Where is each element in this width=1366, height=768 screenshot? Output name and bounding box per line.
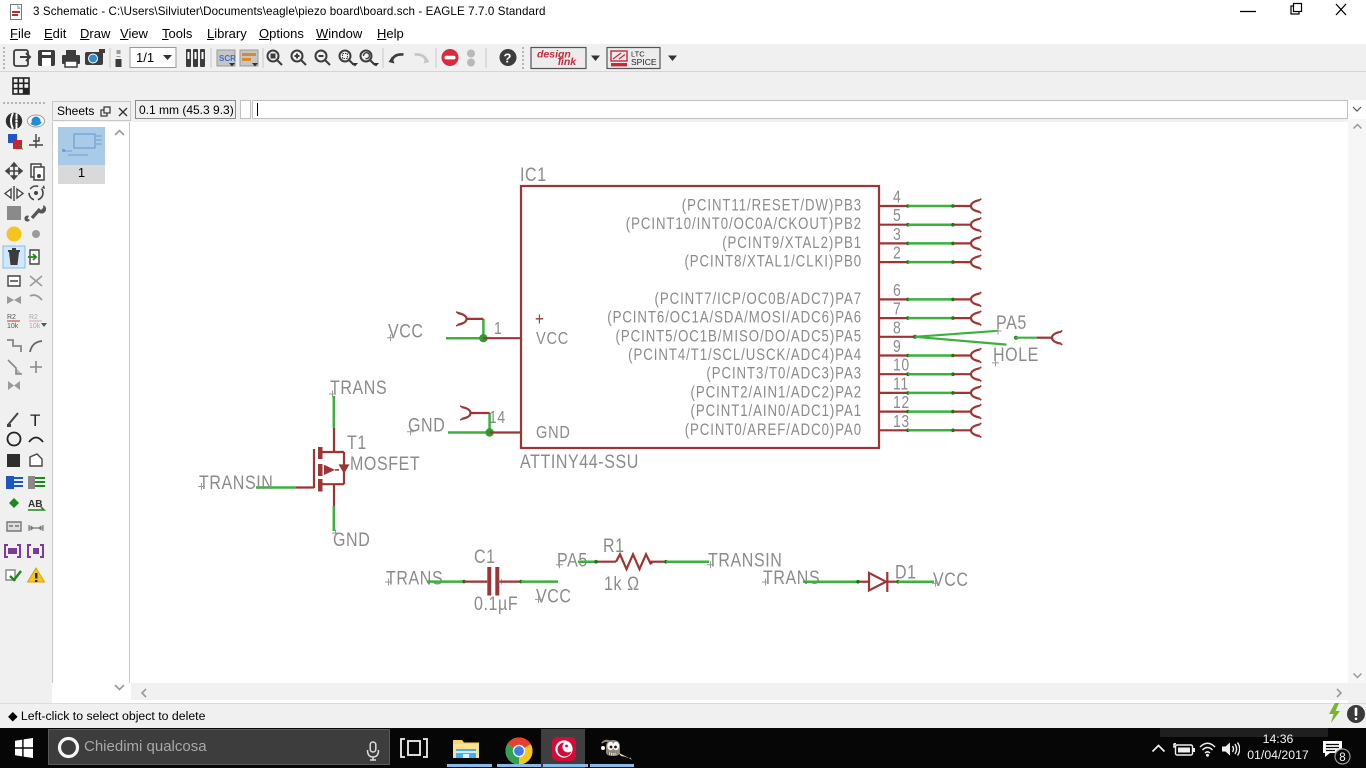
svg-text:D1: D1 — [895, 561, 917, 583]
r16: rect / polygon — [7, 454, 20, 467]
traffic dots — [467, 50, 475, 58]
resistor R1 — [596, 554, 666, 569]
r2: display layers / mark — [8, 134, 17, 143]
wifi — [1198, 741, 1217, 757]
svg-text:8: 8 — [893, 319, 901, 338]
pin 7 wire and connector — [879, 311, 981, 326]
svg-text:9: 9 — [893, 338, 901, 357]
label GND (net to pin14) — [407, 414, 445, 436]
pin 11 wire and connector — [879, 386, 981, 401]
transistor T1 MOSFET — [296, 428, 350, 506]
r1: info globe / show eye — [6, 113, 22, 129]
wire net HOLE (diagonal down) — [915, 337, 1007, 345]
r6: paint / dot — [7, 227, 22, 242]
svg-text:5: 5 — [893, 207, 901, 226]
label TRANSIN (gate) — [198, 471, 273, 493]
sep — [382, 48, 384, 68]
design link button — [531, 48, 586, 69]
svg-text:VCC: VCC — [388, 320, 424, 342]
pin function labels of IC1 — [607, 197, 862, 439]
svg-text:7: 7 — [893, 300, 901, 319]
junction at pin 1 — [479, 334, 487, 342]
r20: pinswap / gateswap purple — [5, 545, 20, 557]
pin 3 wire and connector — [879, 236, 981, 251]
svg-text:14: 14 — [489, 409, 506, 428]
svg-text:T: T — [30, 411, 40, 430]
svg-text:VCC: VCC — [536, 585, 572, 607]
svg-text:TRANS: TRANS — [763, 566, 820, 588]
r15: circle / arc — [8, 433, 21, 446]
r4: mirror / rotate — [5, 186, 23, 201]
label HOLE — [992, 343, 1039, 366]
thumbnail — [58, 127, 105, 165]
svg-text:C1: C1 — [474, 545, 496, 567]
r12: ratsnest / airwire — [8, 360, 22, 374]
wire net TRANS to D1 — [762, 566, 860, 588]
wire net TRANSIN from R1 — [664, 549, 782, 571]
svg-text:0.1µF: 0.1µF — [474, 592, 518, 614]
pin 4 wire and connector — [879, 199, 981, 214]
LTC SPICE button — [607, 48, 660, 69]
diode D1 — [858, 572, 898, 592]
CANVAS — [131, 122, 1348, 683]
tray chevron — [1151, 744, 1166, 753]
pin 6 wire and connector — [879, 292, 981, 307]
wire net TRANSIN (gate) — [256, 486, 296, 489]
r13: arrows — [8, 381, 20, 390]
battery — [1172, 742, 1195, 756]
svg-text:8: 8 — [1339, 752, 1345, 764]
connector pin HOLE — [1037, 330, 1063, 345]
svg-text:GND: GND — [408, 414, 445, 436]
r11: gateswap / bend — [7, 340, 21, 352]
svg-text:SCR: SCR — [219, 54, 236, 63]
svg-text:TRANSIN: TRANSIN — [199, 471, 273, 493]
svg-text:SPICE: SPICE — [631, 57, 657, 67]
svg-text:VCC: VCC — [933, 568, 969, 590]
handle — [522, 47, 524, 69]
clock — [1243, 732, 1313, 764]
svg-text:1k Ω: 1k Ω — [604, 572, 640, 594]
cortana search box — [48, 729, 390, 765]
small stack icon — [117, 50, 121, 60]
pin 14 wire into IC — [490, 431, 521, 433]
r5: group / change wrench — [7, 206, 21, 220]
svg-text:TRANS: TRANS — [386, 567, 443, 589]
running underlines — [447, 764, 492, 767]
svg-text:1: 1 — [494, 320, 502, 339]
svg-text:link: link — [558, 56, 577, 68]
open — [14, 50, 28, 66]
connector pin GND supply — [460, 406, 489, 421]
svg-text:1/1: 1/1 — [136, 50, 154, 65]
svg-text:(PCINT6/OC1A/SDA/MOSI/ADC6)PA6: (PCINT6/OC1A/SDA/MOSI/ADC6)PA6 — [607, 309, 862, 327]
pin 2 wire and connector — [879, 255, 981, 270]
save — [38, 50, 55, 66]
svg-text:+: + — [535, 308, 544, 329]
wire net PA5 to R1 — [578, 560, 598, 564]
r18: junction / label — [9, 498, 19, 508]
start button — [15, 738, 33, 758]
combo 1/1 — [130, 48, 176, 68]
sep — [262, 48, 264, 68]
svg-text:11: 11 — [893, 375, 909, 394]
wire net PA5 (diagonal up) — [915, 331, 998, 337]
pin 8 stub of IC1 — [879, 336, 915, 338]
LEFT PALETTE — [0, 100, 52, 703]
svg-text:(PCINT9/XTAL2)PB1: (PCINT9/XTAL2)PB1 — [722, 235, 862, 253]
label VCC (net to pin1) — [387, 320, 424, 342]
svg-text:R2: R2 — [29, 314, 38, 321]
SCR icon — [217, 50, 235, 66]
IC IC1 body ATTINY44-SSU — [521, 186, 879, 448]
junction on pin 8 — [913, 335, 917, 339]
V SCROLLBAR — [1348, 119, 1366, 683]
wire net GND (source) — [333, 506, 336, 531]
svg-text:12: 12 — [893, 394, 910, 413]
svg-text:GND: GND — [536, 423, 571, 443]
wire HOLE horizontal segment — [1014, 336, 1037, 340]
BRD icon — [240, 50, 258, 66]
r9: smash — [7, 296, 21, 304]
junction at pin 14 — [485, 428, 493, 436]
svg-text:(PCINT1/AIN0/ADC1)PA1: (PCINT1/AIN0/ADC1)PA1 — [691, 403, 862, 421]
PANEL ROW: sheets header / coord / command — [0, 100, 1366, 122]
pin 5 wire and connector — [879, 217, 981, 232]
r8: name / value — [8, 276, 20, 286]
wire VCC net — [446, 319, 483, 338]
sep — [485, 48, 487, 68]
svg-text:10k: 10k — [29, 323, 41, 330]
pin 10 wire and connector — [879, 367, 981, 382]
print — [62, 55, 80, 64]
speaker — [1221, 741, 1240, 757]
sep — [109, 48, 111, 68]
sep — [435, 48, 437, 68]
svg-text:(PCINT3/T0/ADC3)PA3: (PCINT3/T0/ADC3)PA3 — [706, 365, 862, 383]
svg-text:(PCINT5/OC1B/MISO/DO/ADC5)PA5: (PCINT5/OC1B/MISO/DO/ADC5)PA5 — [616, 328, 862, 346]
label GND (source) — [332, 528, 370, 550]
svg-text:6: 6 — [893, 282, 901, 301]
pin 13 wire and connector — [879, 423, 981, 438]
undo — [392, 54, 404, 61]
svg-text:MOSFET: MOSFET — [350, 452, 420, 474]
svg-text:ATTINY44-SSU: ATTINY44-SSU — [520, 450, 639, 472]
svg-text:10: 10 — [893, 356, 910, 375]
STATUS AREA bottom-right icons — [1326, 702, 1366, 726]
stop — [442, 49, 459, 66]
eagle (active) — [541, 729, 585, 768]
connector pin VCC supply — [456, 312, 483, 327]
svg-text:(PCINT8/XTAL1/CLKI)PB0: (PCINT8/XTAL1/CLKI)PB0 — [684, 253, 862, 271]
gimp — [600, 737, 634, 761]
svg-text:13: 13 — [893, 412, 910, 431]
r21: erc / errors — [6, 570, 15, 580]
TOOLBAR ROW 1 — [0, 44, 1366, 72]
redo — [415, 54, 427, 61]
svg-text:10k: 10k — [7, 323, 19, 330]
STATUS BAR — [0, 703, 1366, 728]
svg-text:(PCINT2/AIN1/ADC2)PA2: (PCINT2/AIN1/ADC2)PA2 — [691, 384, 862, 402]
panel scrollbar — [113, 128, 126, 138]
file explorer — [452, 737, 480, 760]
svg-text:(PCINT4/T1/SCL/USCK/ADC4)PA4: (PCINT4/T1/SCL/USCK/ADC4)PA4 — [628, 347, 862, 365]
task view — [400, 738, 428, 758]
svg-text:(PCINT11/RESET/DW)PB3: (PCINT11/RESET/DW)PB3 — [682, 197, 862, 215]
svg-text:R1: R1 — [603, 534, 625, 556]
wire net TRANS (drain) — [333, 396, 336, 428]
svg-text:T1: T1 — [347, 431, 367, 453]
label TRANS (drain) — [329, 376, 387, 398]
wire net TRANS to C1 — [385, 567, 487, 589]
svg-text:3: 3 — [893, 226, 901, 245]
svg-text:VCC: VCC — [536, 329, 569, 349]
notifications — [1322, 740, 1352, 765]
H SCROLLBAR — [131, 683, 1348, 700]
r19: attribute / measure — [7, 522, 21, 531]
svg-text:2: 2 — [893, 244, 901, 263]
wire net VCC from C1 — [499, 580, 571, 607]
svg-text:TRANS: TRANS — [330, 376, 387, 398]
SHEETS PANEL — [52, 122, 130, 683]
TASKBAR — [0, 728, 1366, 768]
pin numbers of IC1 right side — [893, 188, 910, 431]
zoom icons — [268, 51, 380, 67]
pin 9 wire and connector — [879, 348, 981, 363]
TITLE BAR — [0, 0, 1366, 23]
sep — [210, 48, 212, 68]
pin name +VCC inside IC1 — [535, 308, 569, 348]
books — [186, 49, 205, 67]
wire GND net — [448, 413, 490, 433]
svg-text:HOLE: HOLE — [993, 343, 1039, 365]
svg-text:PA5: PA5 — [996, 311, 1027, 333]
wire net VCC from D1 — [896, 568, 968, 590]
capacitor C1 — [487, 567, 504, 596]
r14: wire / text — [8, 413, 18, 425]
dotted handle — [3, 47, 5, 69]
svg-text:?: ? — [504, 51, 512, 66]
label PA5 at R1 — [556, 549, 588, 571]
svg-text:(PCINT7/ICP/OC0B/ADC7)PA7: (PCINT7/ICP/OC0B/ADC7)PA7 — [654, 291, 862, 309]
TOOLBAR ROW 2 — [0, 72, 1366, 100]
label PA5 — [995, 311, 1027, 334]
svg-text:(PCINT0/AREF/ADC0)PA0: (PCINT0/AREF/ADC0)PA0 — [685, 422, 862, 440]
svg-text:GND: GND — [333, 528, 370, 550]
pin 12 wire and connector — [879, 404, 981, 419]
pin 1 wire into IC — [483, 337, 521, 339]
svg-text:AB: AB — [28, 499, 42, 510]
MENU BAR — [0, 23, 1366, 44]
r17: bus / net — [6, 476, 14, 489]
svg-text:IC1: IC1 — [520, 163, 547, 185]
r10: replace value icons — [7, 314, 47, 330]
svg-text:PA5: PA5 — [557, 549, 588, 571]
chrome — [505, 737, 533, 765]
svg-text:(PCINT10/INT0/OC0A/CKOUT)PB2: (PCINT10/INT0/OC0A/CKOUT)PB2 — [626, 216, 862, 234]
camera — [85, 52, 103, 65]
r7: delete (selected) / add — [3, 246, 25, 268]
help — [500, 49, 517, 66]
r3: move / copy — [6, 163, 22, 179]
svg-text:R2: R2 — [7, 314, 16, 321]
svg-text:4: 4 — [893, 188, 901, 207]
